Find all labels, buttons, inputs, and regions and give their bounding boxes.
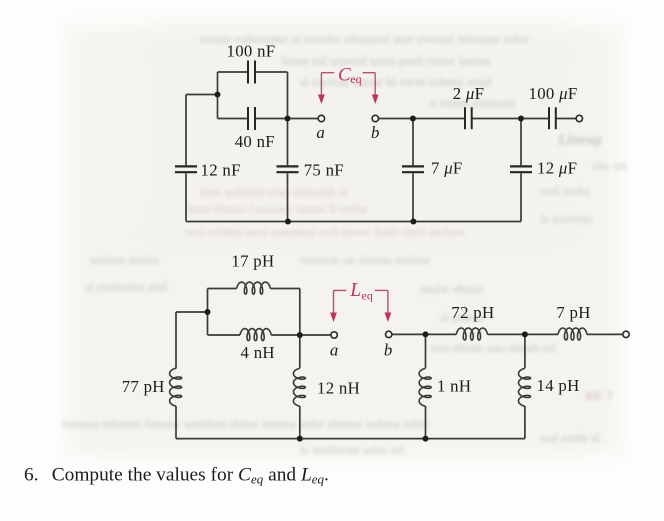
svg-text:75 nF: 75 nF: [304, 161, 344, 180]
svg-text:C: C: [338, 64, 351, 85]
svg-text:2 μF: 2 μF: [453, 84, 485, 103]
svg-text:b: b: [384, 340, 393, 359]
wire left outer rail: [185, 95, 187, 222]
wire 14pH branch: [524, 334, 526, 438]
wire 2uF to 100uF: [472, 118, 549, 120]
node top circuit left: [215, 92, 221, 98]
terminal b top: [372, 115, 378, 121]
wire bottom rail lower circuit: [176, 438, 525, 440]
value labels top circuit: [201, 42, 578, 180]
node b-1nH: [423, 331, 429, 337]
background ghost bleed-through text: [200, 31, 529, 47]
inductor L 7pH: [558, 328, 587, 340]
node lower circuit left: [205, 309, 211, 315]
wire terminal b to 72pH: [392, 333, 456, 335]
node bottom 7uF: [410, 219, 416, 225]
wire feed to node: [186, 94, 218, 96]
wire terminal b to 2uF: [379, 118, 466, 120]
svg-text:12 nF: 12 nF: [201, 161, 241, 180]
wire 100uF to right terminal: [556, 118, 576, 120]
svg-text:100 nF: 100 nF: [227, 42, 276, 61]
capacitor C 100uF plates: [549, 107, 556, 129]
svg-text:6.: 6.: [24, 465, 39, 486]
node bottom 12nH: [297, 436, 303, 442]
terminal b bottom: [386, 331, 392, 337]
svg-text:12 nH: 12 nH: [317, 379, 360, 398]
wire 12uF branch: [520, 119, 522, 222]
wire left inner rail: [217, 72, 219, 119]
wire right inner rail lower: [299, 289, 301, 439]
node 2uF-12uF: [518, 116, 524, 122]
node 40nF-75nF: [285, 116, 291, 122]
svg-text:72 pH: 72 pH: [451, 303, 494, 322]
node bottom 75nF: [285, 219, 291, 225]
svg-text:7 μF: 7 μF: [431, 159, 463, 178]
svg-text:12 μF: 12 μF: [537, 159, 577, 178]
svg-text:1 nH: 1 nH: [437, 377, 471, 396]
wire 7uF branch: [412, 119, 414, 222]
node 72pH-14pH: [522, 331, 528, 337]
inductor L 72pH: [456, 328, 487, 340]
inductor L 4nH: [240, 329, 271, 341]
inductor L 12nH (humps right): [293, 368, 305, 406]
inductor L 1nH (humps right): [419, 368, 431, 406]
wire right inner rail: [287, 72, 289, 222]
node bottom 1nH: [423, 436, 429, 442]
inductor L 14pH (humps right): [519, 368, 531, 406]
open terminals: [318, 115, 629, 338]
wire left outer rail lower: [175, 312, 177, 439]
svg-text:eq: eq: [350, 72, 361, 86]
capacitor C 2uF plates: [465, 107, 472, 129]
terminal a bottom: [331, 332, 337, 338]
svg-text:40 nF: 40 nF: [235, 132, 275, 151]
svg-text:a: a: [330, 340, 339, 359]
wire 4nH branch: [208, 334, 331, 336]
svg-text:7 pH: 7 pH: [556, 303, 590, 322]
value labels bottom circuit: [122, 252, 591, 398]
svg-text:a: a: [316, 123, 325, 142]
svg-text:eq: eq: [362, 289, 373, 303]
wire 40nF middle branch: [218, 118, 319, 120]
node b-7uF: [410, 116, 416, 122]
terminal right bottom: [623, 331, 629, 337]
svg-text:L: L: [349, 280, 361, 301]
wire 100nF top branch: [218, 71, 288, 73]
inductor L 17pH: [237, 282, 271, 294]
inductor L 77pH (humps left): [170, 368, 182, 406]
terminal right top: [576, 115, 582, 121]
pink Leq bracket arrows: [334, 290, 388, 314]
terminal a top: [318, 115, 324, 121]
wire left inner rail lower: [207, 289, 209, 336]
wire bottom rail top circuit: [186, 221, 521, 223]
wire 17pH branch: [208, 288, 300, 290]
capacitor C 7uF plates: [402, 166, 424, 172]
capacitor C 40nF plates: [248, 107, 255, 130]
svg-text:77 pH: 77 pH: [122, 377, 165, 396]
capacitor C 12nF plates: [175, 166, 197, 172]
svg-text:b: b: [371, 123, 380, 142]
svg-text:14 pH: 14 pH: [537, 376, 580, 395]
scanned paper tone: [68, 26, 620, 454]
node 4nH-12nH: [297, 332, 303, 338]
capacitor C 12uF plates: [510, 166, 532, 172]
svg-text:17 pH: 17 pH: [231, 252, 274, 271]
pink Ceq bracket arrows: [321, 73, 375, 96]
wire feed to node lower: [176, 311, 208, 313]
wire 72pH to 7pH: [488, 333, 559, 335]
wire 7pH to right terminal: [587, 333, 623, 335]
svg-text:100 μF: 100 μF: [529, 84, 578, 103]
svg-text:Compute the values for Ceq and: Compute the values for Ceq and Leq.: [52, 465, 329, 487]
wire 1nH branch: [425, 334, 427, 438]
svg-text:4 nH: 4 nH: [241, 343, 275, 362]
capacitor C 75nF plates: [277, 166, 299, 172]
capacitor C 100nF plates: [248, 61, 255, 84]
